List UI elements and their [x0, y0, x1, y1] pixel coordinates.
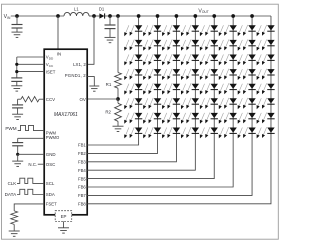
LED string 4 LED 7	[181, 113, 199, 124]
LED string 2 LED 5	[143, 83, 161, 94]
LED string 4 LED 2	[181, 40, 199, 51]
LED string 5 LED 2	[200, 40, 218, 51]
LED string 7 LED 1	[238, 25, 256, 36]
LED string 2 LED 3	[143, 54, 161, 65]
resistor CCV compensation	[18, 97, 45, 102]
LED string 4 LED 3	[181, 54, 199, 65]
LED string 1 LED 1	[124, 25, 142, 36]
junction OV divider tap	[116, 14, 120, 18]
ground (FSET resistor)	[9, 231, 20, 236]
wire OSC stub	[38, 163, 44, 165]
LED string 3 LED 4	[162, 69, 180, 80]
LED string 7 LED 4	[238, 69, 256, 80]
wire GND pin	[18, 153, 45, 155]
LED string 1 LED 3	[124, 54, 142, 65]
junction LX tap	[92, 14, 96, 18]
svg-text:SDA: SDA	[46, 192, 55, 197]
wire LED string 8 and FB8 return	[87, 16, 271, 204]
LED string 8 LED 1	[257, 25, 275, 36]
wire SDA pin with square wave	[17, 189, 44, 194]
ground (CIN)	[12, 32, 23, 37]
LED string 1 LED 5	[124, 83, 142, 94]
svg-text:ISET: ISET	[46, 69, 56, 74]
ground (CCV cap)	[12, 114, 23, 119]
LED string 5 LED 5	[200, 83, 218, 94]
svg-text:PWMO: PWMO	[46, 135, 60, 140]
wire VDD/VCC/ISET rail	[16, 57, 18, 78]
svg-text:OV: OV	[79, 97, 85, 102]
LED string 5 LED 7	[200, 113, 218, 124]
capacitor COUT	[105, 16, 116, 37]
svg-text:CLK: CLK	[8, 181, 17, 186]
junction ISET rail	[15, 70, 18, 73]
LED string 3 LED 1	[162, 25, 180, 36]
resistor R1	[115, 73, 122, 89]
svg-text:SCL: SCL	[46, 181, 55, 186]
LED string 5 LED 4	[200, 69, 218, 80]
svg-text:R1: R1	[106, 82, 112, 87]
wire ISET pin	[17, 71, 44, 73]
wire LED string 2 and FB2 return	[87, 16, 157, 153]
wire SCL pin with square wave	[17, 178, 44, 183]
wire VIN to L1	[11, 15, 64, 17]
ground (EP)	[58, 221, 69, 233]
LED string 8 LED 3	[257, 54, 275, 65]
junction LED string 7 at VOUT bus	[250, 14, 254, 18]
wire LED string 6 and FB6 return	[87, 16, 233, 187]
LED string 6 LED 1	[219, 25, 237, 36]
junction LED string 3 at VOUT bus	[175, 14, 179, 18]
svg-text:PGND1, 2: PGND1, 2	[65, 73, 86, 78]
svg-text:EP: EP	[61, 214, 67, 219]
capacitor PWMO filter	[12, 138, 23, 154]
LED string 7 LED 8	[238, 127, 256, 138]
svg-text:IN: IN	[57, 52, 61, 57]
svg-text:CCV: CCV	[46, 97, 55, 102]
svg-text:R2: R2	[105, 109, 111, 114]
ground (VDD bypass cap)	[11, 86, 22, 91]
LED string 3 LED 7	[162, 113, 180, 124]
wire VCC pin	[17, 63, 44, 65]
LED string 2 LED 2	[143, 40, 161, 51]
ground (GND pin)	[12, 154, 23, 166]
capacitor CIN	[12, 16, 23, 32]
LED string 4 LED 8	[181, 127, 199, 138]
LED string 3 LED 6	[162, 98, 180, 109]
junction LED string 1 at VOUT bus	[137, 14, 141, 18]
svg-text:FB7: FB7	[78, 193, 86, 198]
wire LED string 4 and FB4 return	[87, 16, 195, 170]
IC U1 MAX17061 body	[44, 49, 87, 215]
LED string 8 LED 2	[257, 40, 275, 51]
LED string 6 LED 2	[219, 40, 237, 51]
wire IN pin stub	[57, 16, 59, 50]
junction IN pin tap	[56, 14, 60, 18]
LED string 8 LED 8	[257, 127, 275, 138]
wire PWMO pin	[18, 137, 45, 139]
svg-text:FB5: FB5	[78, 176, 86, 181]
LED string 5 LED 1	[200, 25, 218, 36]
inductor L1	[64, 12, 89, 16]
LED string 8 LED 4	[257, 69, 275, 80]
LED string 4 LED 5	[181, 83, 199, 94]
wire LX1,2 pin	[87, 16, 94, 64]
LED string 3 LED 2	[162, 40, 180, 51]
junction LED string 4 at VOUT bus	[193, 14, 197, 18]
LED string 6 LED 3	[219, 54, 237, 65]
wire VDD pin	[17, 56, 44, 58]
capacitor VDD bypass	[11, 78, 22, 86]
LED string 8 LED 5	[257, 83, 275, 94]
wire L1 to D1	[89, 15, 99, 17]
LED string 7 LED 2	[238, 40, 256, 51]
LED string 1 LED 6	[124, 98, 142, 109]
LED string 5 LED 6	[200, 98, 218, 109]
LED string 4 LED 6	[181, 98, 199, 109]
wire PWM pin with square wave	[18, 125, 45, 130]
LED string 6 LED 8	[219, 127, 237, 138]
node OV junction	[116, 97, 120, 101]
junction output cap tap	[108, 14, 112, 18]
LED string 6 LED 5	[219, 83, 237, 94]
capacitor CCV compensation	[12, 99, 23, 114]
wire R1 to OV node	[117, 88, 119, 99]
LED string 1 LED 2	[124, 40, 142, 51]
wire bus to R1	[117, 16, 119, 73]
svg-text:OSC: OSC	[46, 162, 56, 167]
LED string 6 LED 6	[219, 98, 237, 109]
resistor FSET	[11, 211, 18, 231]
LED string 2 LED 6	[143, 98, 161, 109]
ground (PGND)	[89, 86, 99, 91]
LED string 5 LED 3	[200, 54, 218, 65]
LED string 2 LED 8	[143, 127, 161, 138]
wire OV pin	[87, 98, 118, 100]
wire PGND pin	[87, 77, 94, 86]
LED string 1 LED 4	[124, 69, 142, 80]
svg-text:FB1: FB1	[78, 143, 86, 148]
LED string 8 LED 7	[257, 113, 275, 124]
junction GND net	[16, 153, 19, 156]
LED string 7 LED 5	[238, 83, 256, 94]
svg-text:FB2: FB2	[78, 151, 86, 156]
LED string 6 LED 7	[219, 113, 237, 124]
LED string 7 LED 6	[238, 98, 256, 109]
svg-text:FSET: FSET	[46, 202, 57, 207]
svg-text:L1: L1	[74, 6, 79, 11]
svg-text:VCC: VCC	[46, 62, 54, 68]
LED string 2 LED 4	[143, 69, 161, 80]
svg-text:PWM: PWM	[5, 126, 16, 131]
wire FSET pin	[14, 204, 44, 211]
svg-text:DATA: DATA	[5, 192, 18, 197]
svg-text:FB6: FB6	[78, 185, 86, 190]
wire LED string 1 and FB1 return	[87, 16, 138, 145]
LED string 4 LED 4	[181, 69, 199, 80]
LED string 3 LED 3	[162, 54, 180, 65]
ground (COUT)	[105, 37, 116, 42]
junction VCC rail	[15, 63, 18, 66]
wire LED string 3 and FB3 return	[87, 16, 176, 162]
LED string 3 LED 5	[162, 83, 180, 94]
svg-text:FB4: FB4	[78, 168, 86, 173]
junction input cap tap	[15, 14, 19, 18]
svg-text:D1: D1	[99, 6, 105, 11]
svg-text:N.C.: N.C.	[28, 162, 37, 167]
pin EP exposed pad	[55, 211, 71, 222]
LED string 2 LED 1	[143, 25, 161, 36]
LED string 1 LED 8	[124, 127, 142, 138]
svg-text:VDD: VDD	[46, 55, 54, 61]
LED string 6 LED 4	[219, 69, 237, 80]
LED string 8 LED 6	[257, 98, 275, 109]
svg-text:FB8: FB8	[78, 202, 86, 207]
svg-text:GND: GND	[46, 152, 56, 157]
LED string 1 LED 7	[124, 113, 142, 124]
junction LED string 6 at VOUT bus	[231, 14, 235, 18]
wire LED string 5 and FB5 return	[87, 16, 214, 179]
LED string 3 LED 8	[162, 127, 180, 138]
resistor R2	[115, 99, 122, 126]
LED string 4 LED 1	[181, 25, 199, 36]
junction LED string 2 at VOUT bus	[156, 14, 160, 18]
junction LED string 5 at VOUT bus	[212, 14, 216, 18]
LED string 7 LED 7	[238, 113, 256, 124]
svg-text:FB3: FB3	[78, 160, 86, 165]
LED string 2 LED 7	[143, 113, 161, 124]
LED string 5 LED 8	[200, 127, 218, 138]
wire LED string 7 and FB7 return	[87, 16, 252, 195]
ground (R2)	[113, 126, 124, 131]
diode D1	[99, 13, 104, 18]
LED string 7 LED 3	[238, 54, 256, 65]
wire VOUT bus	[105, 15, 271, 17]
svg-text:MAX17061: MAX17061	[54, 112, 78, 118]
svg-text:LX1, 2: LX1, 2	[73, 62, 86, 67]
